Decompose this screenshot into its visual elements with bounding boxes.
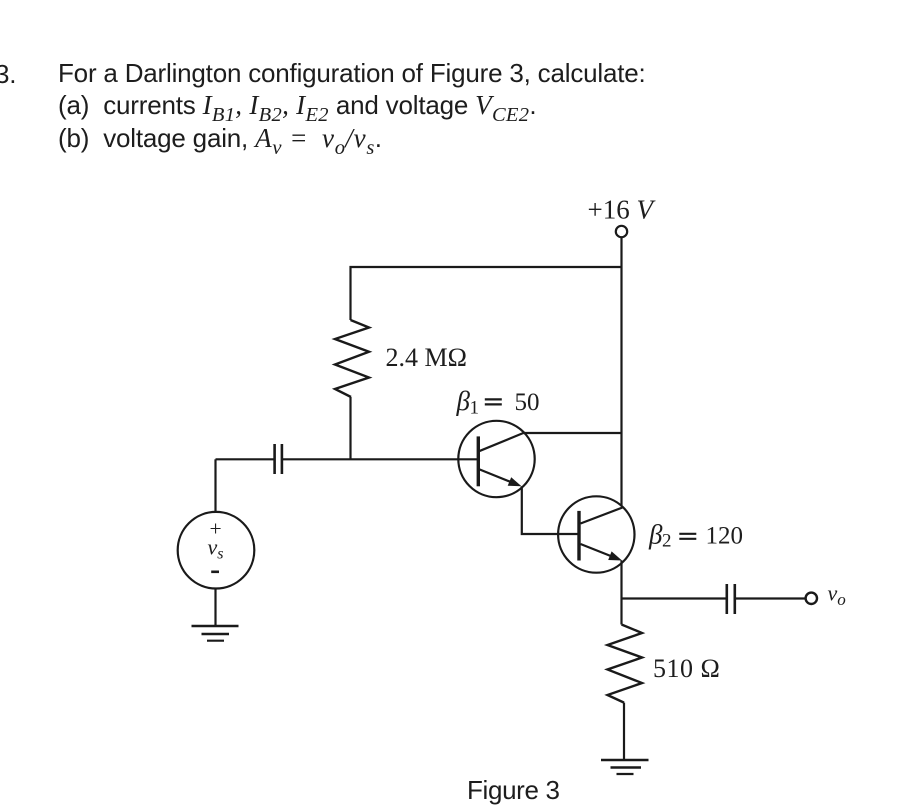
transistor Q2 base bar (577, 511, 580, 561)
ground G2 bar 3 (617, 773, 634, 775)
transistor Q1 emitter line (479, 469, 517, 484)
ground G1 bar 3 (207, 640, 224, 642)
transistor Q2 collector line (581, 508, 623, 524)
capacitor C1 left plate (273, 444, 276, 474)
wire supply rail vertical to Q2 collector (620, 237, 622, 506)
ground G2 bar 2 (611, 766, 642, 769)
equals sign of beta1 label (485, 398, 502, 400)
transistor Q1 base bar (477, 436, 480, 486)
wire R1 bottom lead to input node (349, 397, 351, 459)
wire vs bottom lead (214, 589, 216, 626)
ground G1 bar 1 (192, 625, 239, 628)
wire top horizontal from rail to R1 top lead (351, 267, 622, 320)
wire R2 bottom to ground (623, 703, 625, 760)
wire Q1 emitter down (522, 486, 578, 534)
equals sign of beta2 label (679, 533, 696, 535)
transistor Q1 emitter arrowhead (508, 477, 522, 486)
transistor Q2 emitter arrowhead (608, 551, 622, 560)
wire output node to capacitor C2 (622, 597, 726, 599)
svg-text:510 Ω: 510 Ω (653, 654, 720, 683)
transistor Q1 circle (458, 421, 534, 497)
svg-text:β2120: β2120 (648, 519, 743, 551)
wire Q1 collector to supply rail (523, 432, 621, 434)
figure caption (467, 777, 560, 803)
svg-text:vo: vo (828, 581, 846, 610)
problem number 3. (0, 61, 16, 87)
wire vs top lead (214, 459, 216, 512)
wire capacitor C2 to vo terminal (736, 597, 806, 599)
problem statement line 1 (58, 60, 646, 86)
transistor Q2 emitter line (581, 544, 618, 559)
ground G1 bar 2 (202, 633, 230, 636)
svg-text:2.4 MΩ: 2.4 MΩ (386, 343, 467, 372)
wire output node down to R2 (620, 599, 622, 625)
resistor R2 510 ohm zigzag (608, 625, 643, 703)
supply terminal circle (616, 226, 627, 237)
transistor Q1 collector line (479, 433, 524, 451)
capacitor C1 right plate (281, 444, 284, 474)
terminal vo circle (806, 593, 817, 604)
capacitor C2 right plate (733, 584, 736, 614)
problem statement line (b) (58, 125, 382, 152)
transistor Q2 circle (558, 496, 634, 572)
wire input node horizontal from vs lead to capacitor C1 (216, 458, 274, 460)
wire Q2 emitter down to output node (620, 561, 622, 599)
svg-text:+16 V: +16 V (588, 194, 657, 224)
ground G2 bar 1 (601, 759, 649, 762)
wire capacitor C1 to Q1 base (283, 458, 477, 460)
label minus sign in source (211, 570, 219, 573)
capacitor C2 left plate (725, 584, 728, 614)
svg-text:β150: β150 (456, 386, 540, 419)
resistor R1 2.4 Mohm zigzag (335, 320, 369, 397)
problem statement line (a) (58, 92, 536, 119)
source VS circle (178, 512, 255, 589)
